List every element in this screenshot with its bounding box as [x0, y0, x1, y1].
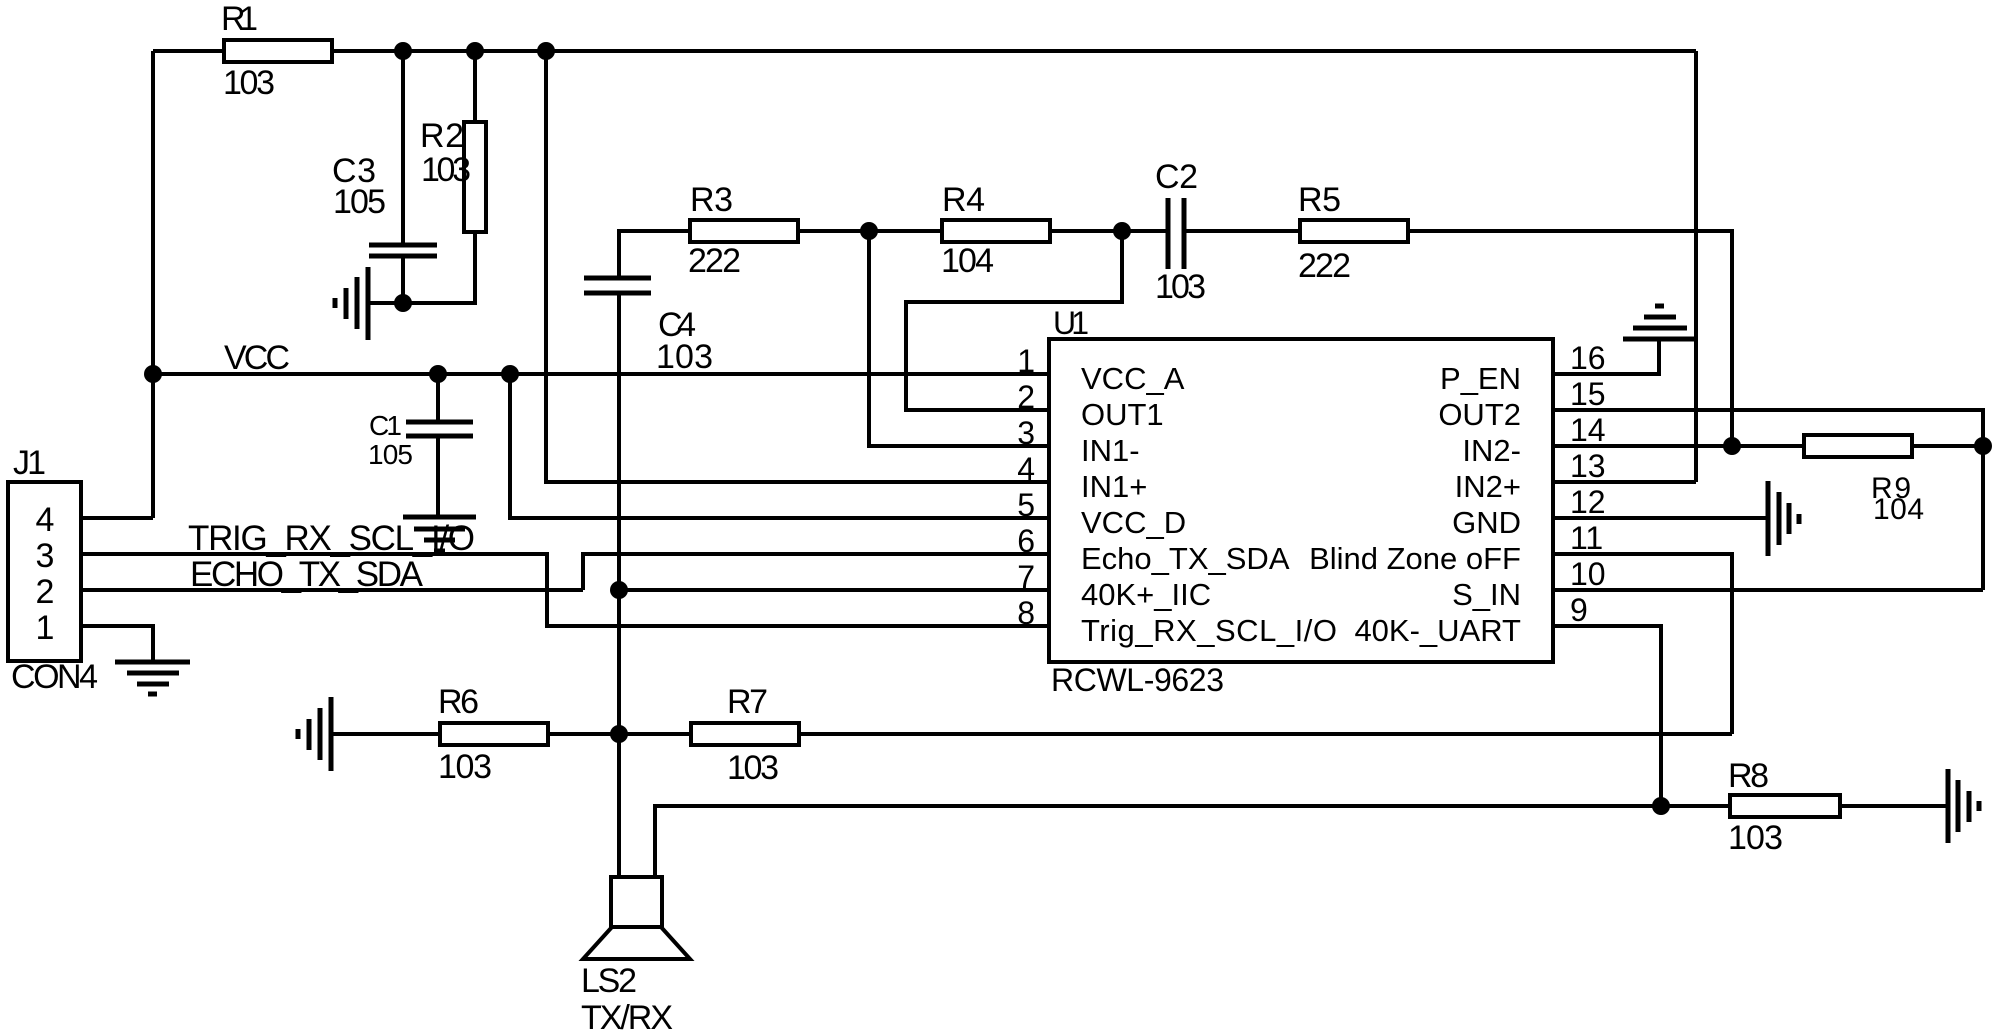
- svg-text:IN1+: IN1+: [1081, 469, 1147, 504]
- junction pin9 / LS2 / R8: [1652, 797, 1670, 815]
- wire R6 to R7: [548, 732, 691, 736]
- wire U1 pin9 40K-_UART down to R8 row: [1553, 626, 1661, 806]
- wire junction to R8: [1661, 804, 1730, 808]
- wire OUT1 path R4/C2 junction to U1 pin2: [906, 231, 1122, 410]
- svg-text:104: 104: [941, 242, 994, 280]
- wire IN1+ drop from top rail: [546, 51, 1049, 482]
- wire LS2 right lead to R8 row: [655, 806, 1661, 877]
- wire C1 bottom lead: [436, 436, 440, 515]
- wire U1 pin15 OUT2 to right drop: [1553, 410, 1983, 590]
- svg-text:R7: R7: [727, 683, 768, 721]
- wire ground to R6: [331, 732, 440, 736]
- capacitor C3: [332, 152, 437, 256]
- wire R5 right to pin14 drop: [1408, 231, 1732, 446]
- svg-text:CON4: CON4: [11, 658, 98, 696]
- junction C3 / R2 ground node: [394, 294, 412, 312]
- svg-text:GND: GND: [1452, 505, 1521, 540]
- wire 40K+_IIC segment U1 pin7 to C4 vertical: [619, 588, 1049, 592]
- IC U1 RCWL-9623 body: [1049, 305, 1553, 698]
- svg-text:Echo_TX_SDA: Echo_TX_SDA: [1081, 541, 1290, 576]
- svg-text:13: 13: [1570, 448, 1606, 484]
- wire R2 top lead: [473, 51, 477, 122]
- svg-text:103: 103: [223, 64, 275, 102]
- svg-text:103: 103: [727, 749, 779, 787]
- wire R8 to ground: [1840, 804, 1948, 808]
- resistor R7: [691, 683, 799, 787]
- svg-text:4: 4: [36, 501, 55, 539]
- U1 pin 3 label IN1-: [1017, 415, 1139, 468]
- wire R9 right lead: [1912, 444, 1983, 448]
- svg-text:R1: R1: [221, 0, 258, 38]
- svg-text:15: 15: [1570, 376, 1606, 412]
- junction R6 / R7 / LS2: [610, 725, 628, 743]
- resistor R1: [221, 0, 332, 102]
- wire C3 bottom lead: [401, 256, 405, 303]
- U1 pin 8 label Trig_RX_SCL_I/O: [1017, 595, 1337, 648]
- junction VCC / VCC_D drop: [501, 365, 519, 383]
- svg-text:105: 105: [368, 439, 413, 470]
- resistor R2: [420, 117, 486, 232]
- svg-text:11: 11: [1570, 520, 1603, 556]
- wire left vertical J1.4 to top rail: [151, 51, 155, 518]
- svg-text:2: 2: [36, 573, 55, 611]
- svg-text:103: 103: [1728, 819, 1783, 857]
- wire C1 top lead: [436, 374, 440, 420]
- wire R3 left lead down to C4: [619, 231, 690, 276]
- svg-text:OUT2: OUT2: [1438, 397, 1521, 432]
- ground at J1 pin1 (downward): [115, 662, 190, 694]
- svg-text:222: 222: [688, 242, 741, 280]
- U1 pin 16 label P_EN: [1440, 340, 1606, 396]
- ground at C1 (downward): [403, 517, 476, 551]
- svg-text:105: 105: [333, 183, 386, 221]
- resistor R9: [1804, 435, 1924, 526]
- wire U1 pin12 GND stub: [1553, 516, 1768, 520]
- wire U1 pin11 Blind Zone oFF to R7: [1553, 554, 1732, 734]
- U1 pin 1 label VCC_A: [1017, 343, 1184, 396]
- svg-text:J1: J1: [13, 444, 46, 482]
- wire ECHO net J1.2 to jog: [81, 588, 583, 592]
- svg-text:103: 103: [656, 338, 713, 376]
- wire C4 bottom lead long vertical to LS2: [617, 293, 621, 877]
- svg-text:Blind Zone oFF: Blind Zone oFF: [1309, 541, 1521, 576]
- resistor R6: [438, 683, 548, 786]
- wire right vertical top rail to U1 pin13: [1694, 51, 1698, 482]
- svg-text:40K-_UART: 40K-_UART: [1354, 613, 1521, 648]
- svg-text:R6: R6: [438, 683, 479, 721]
- wire VCC_D drop: [510, 374, 1049, 518]
- U1 pin 7 label 40K+_IIC: [1017, 559, 1211, 612]
- svg-text:P_EN: P_EN: [1440, 361, 1521, 396]
- wire C2 to R5: [1184, 229, 1300, 233]
- wire IN1- path R3/R4 junction to U1 pin3: [869, 231, 1049, 446]
- svg-text:R3: R3: [690, 181, 733, 219]
- svg-text:222: 222: [1298, 247, 1351, 285]
- svg-text:LS2: LS2: [581, 962, 637, 1000]
- svg-text:40K+_IIC: 40K+_IIC: [1081, 577, 1211, 612]
- svg-text:R8: R8: [1728, 757, 1769, 795]
- wire R4 to C2: [1050, 229, 1166, 233]
- ground at U1 pin12 (right-pointing): [1768, 481, 1799, 556]
- svg-text:10: 10: [1570, 556, 1606, 592]
- svg-text:U1: U1: [1053, 305, 1089, 341]
- svg-text:R4: R4: [942, 181, 985, 219]
- U1 pin 2 label OUT1: [1017, 379, 1163, 432]
- svg-text:IN1-: IN1-: [1081, 433, 1140, 468]
- U1 pin 6 label Echo_TX_SDA: [1017, 523, 1290, 576]
- wire R3 to R4: [798, 229, 942, 233]
- U1 pin 5 label VCC_D: [1017, 487, 1186, 540]
- U1 pin 13 label IN2+: [1455, 448, 1606, 504]
- svg-text:OUT1: OUT1: [1081, 397, 1164, 432]
- svg-text:7: 7: [1017, 559, 1035, 595]
- capacitor C4: [584, 278, 713, 376]
- junction top rail / IN1+ drop: [537, 42, 555, 60]
- svg-text:VCC_D: VCC_D: [1081, 505, 1186, 540]
- wire TRIG net J1.3 to U1 pin8: [81, 554, 1049, 626]
- wire J1 pin4 stub to VCC vertical: [81, 516, 153, 520]
- svg-text:9: 9: [1570, 592, 1588, 628]
- resistor R4: [941, 181, 1050, 280]
- resistor R8: [1728, 757, 1840, 857]
- U1 pin 9 label 40K-_UART: [1354, 592, 1587, 648]
- svg-text:103: 103: [421, 151, 471, 189]
- wire U1 pin13 IN2+ stub: [1553, 480, 1696, 484]
- svg-text:S_IN: S_IN: [1452, 577, 1521, 612]
- wire R7 right to pin11 drop: [799, 732, 1732, 736]
- svg-text:3: 3: [36, 537, 55, 575]
- U1 pin 12 label GND: [1452, 484, 1605, 540]
- ground at R8 (right-pointing): [1948, 769, 1979, 843]
- svg-text:RCWL-9623: RCWL-9623: [1051, 662, 1224, 698]
- svg-text:TX/RX: TX/RX: [581, 999, 673, 1036]
- svg-text:IN2+: IN2+: [1455, 469, 1521, 504]
- svg-text:14: 14: [1570, 412, 1606, 448]
- wire U1 pin10 S_IN long line: [1553, 588, 1983, 592]
- svg-text:104: 104: [1873, 493, 1924, 526]
- resistor R3: [688, 181, 798, 280]
- U1 pin 11 label Blind Zone oFF: [1309, 520, 1603, 576]
- svg-text:5: 5: [1017, 487, 1035, 523]
- svg-text:1: 1: [36, 609, 55, 647]
- junction VCC / C1: [429, 365, 447, 383]
- svg-text:3: 3: [1017, 415, 1035, 451]
- ground at C3 (left-pointing): [335, 267, 403, 340]
- connector J1 CON4: [8, 444, 98, 696]
- junction R9 / OUT2 / S_IN: [1974, 437, 1992, 455]
- wire top rail right segment: [332, 49, 1696, 53]
- svg-text:C1: C1: [369, 410, 402, 441]
- junction top rail / R2: [466, 42, 484, 60]
- wire ECHO jog up to U1 pin6: [583, 554, 1049, 590]
- svg-text:103: 103: [438, 748, 492, 786]
- ground at R6 (left-pointing): [298, 697, 331, 771]
- junction 40K+_IIC / C4 vertical: [610, 581, 628, 599]
- wire R2 bottom lead: [403, 232, 475, 303]
- junction R3 / R4 / IN1-: [860, 222, 878, 240]
- wire LS2 left lead (part of C4 vertical): [617, 734, 621, 877]
- svg-text:VCC_A: VCC_A: [1081, 361, 1185, 396]
- ground at P_EN (upward): [1623, 306, 1696, 339]
- U1 pin 4 label IN1+: [1017, 451, 1147, 504]
- junction top rail / C3: [394, 42, 412, 60]
- svg-text:C2: C2: [1155, 158, 1198, 196]
- U1 pin 10 label S_IN: [1452, 556, 1606, 612]
- speaker LS2: [581, 877, 690, 1036]
- svg-text:103: 103: [1155, 268, 1206, 306]
- wire U1 pin16 P_EN stub to ground: [1553, 339, 1659, 374]
- junction pin14 / R5 drop: [1723, 437, 1741, 455]
- svg-text:12: 12: [1570, 484, 1606, 520]
- svg-text:16: 16: [1570, 340, 1606, 376]
- U1 pin 14 label IN2-: [1462, 412, 1605, 468]
- U1 pin 15 label OUT2: [1438, 376, 1605, 432]
- wire VCC rail to U1 pin1 VCC_A: [153, 372, 1049, 376]
- capacitor C2: [1155, 158, 1206, 306]
- wire U1 pin14 IN2- row: [1553, 444, 1732, 448]
- svg-text:VCC: VCC: [224, 339, 290, 377]
- wire top rail left segment: [153, 49, 224, 53]
- wire pin14 junction to R9: [1732, 444, 1804, 448]
- svg-text:IN2-: IN2-: [1462, 433, 1521, 468]
- capacitor C1: [368, 410, 473, 470]
- svg-text:8: 8: [1017, 595, 1035, 631]
- junction VCC / left vertical: [144, 365, 162, 383]
- wire C3 top lead: [401, 51, 405, 243]
- svg-text:R2: R2: [420, 117, 464, 155]
- svg-text:Trig_RX_SCL_I/O: Trig_RX_SCL_I/O: [1081, 613, 1337, 648]
- resistor R5: [1298, 181, 1408, 285]
- svg-text:2: 2: [1017, 379, 1035, 415]
- junction R4 / C2 / OUT1: [1113, 222, 1131, 240]
- wire J1 pin1 stub: [81, 626, 153, 660]
- svg-text:6: 6: [1017, 523, 1035, 559]
- svg-text:1: 1: [1017, 343, 1035, 379]
- svg-text:R5: R5: [1298, 181, 1341, 219]
- svg-text:4: 4: [1017, 451, 1035, 487]
